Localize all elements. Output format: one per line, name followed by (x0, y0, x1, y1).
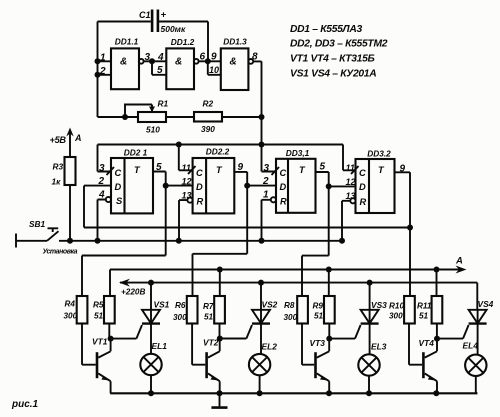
svg-text:R8: R8 (284, 301, 295, 310)
svg-text:VS4: VS4 (478, 299, 494, 309)
svg-text:11: 11 (182, 163, 191, 173)
svg-text:&: & (230, 57, 237, 68)
svg-text:DD2.2: DD2.2 (206, 147, 230, 157)
svg-text:R: R (280, 197, 287, 207)
svg-text:12: 12 (182, 177, 192, 187)
svg-text:4: 4 (157, 52, 164, 63)
svg-text:3: 3 (145, 52, 151, 63)
svg-text:3: 3 (99, 163, 105, 174)
svg-text:1: 1 (263, 190, 269, 201)
svg-text:D: D (115, 182, 122, 192)
svg-text:10: 10 (209, 65, 219, 75)
svg-text:R2: R2 (203, 99, 214, 109)
svg-text:+5В: +5В (50, 135, 67, 145)
svg-text:EL2: EL2 (262, 342, 278, 352)
svg-text:R3: R3 (53, 162, 64, 172)
svg-text:&: & (175, 57, 182, 68)
svg-text:DD3,1: DD3,1 (286, 148, 310, 158)
svg-text:рис.1: рис.1 (11, 399, 39, 410)
svg-text:VT1 VT4 – КТ315Б: VT1 VT4 – КТ315Б (290, 54, 375, 65)
svg-text:EL4: EL4 (463, 341, 479, 351)
svg-text:A: A (455, 256, 463, 267)
svg-text:DD1.3: DD1.3 (223, 37, 247, 47)
svg-text:C: C (196, 168, 203, 178)
svg-text:300: 300 (173, 313, 187, 322)
svg-text:Установка: Установка (43, 248, 78, 255)
svg-text:C: C (115, 168, 122, 178)
svg-text:51: 51 (314, 312, 324, 321)
svg-text:DD2, DD3 – К555ТМ2: DD2, DD3 – К555ТМ2 (290, 39, 388, 50)
svg-text:R11: R11 (417, 302, 432, 311)
svg-text:R4: R4 (65, 300, 76, 309)
svg-text:500мк: 500мк (161, 24, 186, 34)
svg-text:13: 13 (346, 191, 356, 201)
svg-text:R5: R5 (93, 301, 104, 310)
svg-text:D: D (280, 182, 287, 192)
svg-text:DD2 1: DD2 1 (124, 147, 148, 157)
svg-text:8: 8 (252, 52, 258, 63)
svg-text:5: 5 (157, 65, 163, 76)
svg-text:EL3: EL3 (371, 342, 387, 352)
svg-text:3: 3 (264, 163, 270, 174)
svg-text:+: + (161, 10, 167, 21)
svg-text:51: 51 (419, 312, 429, 321)
svg-text:11: 11 (346, 163, 355, 173)
svg-text:2: 2 (99, 66, 106, 77)
svg-text:R9: R9 (313, 302, 324, 311)
svg-text:51: 51 (204, 313, 214, 322)
svg-text:C: C (280, 168, 287, 178)
svg-text:DD3.2: DD3.2 (367, 149, 391, 159)
svg-text:9: 9 (211, 52, 217, 63)
svg-text:VS2: VS2 (262, 300, 278, 310)
svg-text:D: D (359, 182, 366, 192)
svg-text:300: 300 (389, 312, 403, 321)
svg-text:510: 510 (146, 125, 160, 135)
svg-text:DD1.1: DD1.1 (115, 37, 139, 47)
svg-text:C1: C1 (139, 10, 151, 20)
svg-text:VT4: VT4 (419, 338, 435, 348)
svg-text:&: & (120, 57, 127, 68)
svg-text:2: 2 (262, 176, 269, 187)
svg-text:VS1 VS4 – КУ201А: VS1 VS4 – КУ201А (290, 69, 376, 80)
svg-text:300: 300 (64, 312, 78, 321)
svg-text:C: C (359, 168, 366, 178)
svg-text:DD1 – К555ЛА3: DD1 – К555ЛА3 (290, 24, 362, 35)
svg-text:12: 12 (346, 177, 356, 187)
svg-text:13: 13 (182, 191, 192, 201)
svg-text:R10: R10 (389, 302, 404, 311)
svg-text:R1: R1 (158, 99, 169, 109)
svg-text:R: R (360, 197, 367, 207)
svg-text:DD1.2: DD1.2 (171, 37, 195, 47)
svg-text:VS1: VS1 (154, 300, 170, 310)
svg-text:6: 6 (200, 52, 206, 63)
svg-text:VS3: VS3 (371, 300, 387, 310)
svg-text:1: 1 (100, 53, 106, 64)
svg-text:1к: 1к (52, 177, 62, 187)
svg-text:2: 2 (98, 176, 105, 187)
svg-text:+220В: +220В (121, 287, 145, 296)
svg-text:51: 51 (94, 312, 104, 321)
svg-text:EL1: EL1 (152, 341, 168, 351)
svg-text:SB1: SB1 (29, 219, 46, 229)
svg-text:VT3: VT3 (310, 338, 326, 348)
svg-text:A: A (74, 133, 82, 143)
svg-text:D: D (196, 182, 203, 192)
svg-text:R: R (197, 197, 204, 207)
svg-text:S: S (116, 196, 123, 206)
svg-text:5: 5 (320, 162, 326, 173)
svg-text:VT1: VT1 (92, 337, 108, 347)
svg-text:R6: R6 (175, 301, 186, 310)
svg-text:390: 390 (201, 124, 215, 134)
svg-text:R7: R7 (203, 302, 214, 311)
svg-text:4: 4 (98, 190, 105, 201)
svg-text:300: 300 (284, 313, 298, 322)
svg-text:VT2: VT2 (203, 338, 219, 348)
